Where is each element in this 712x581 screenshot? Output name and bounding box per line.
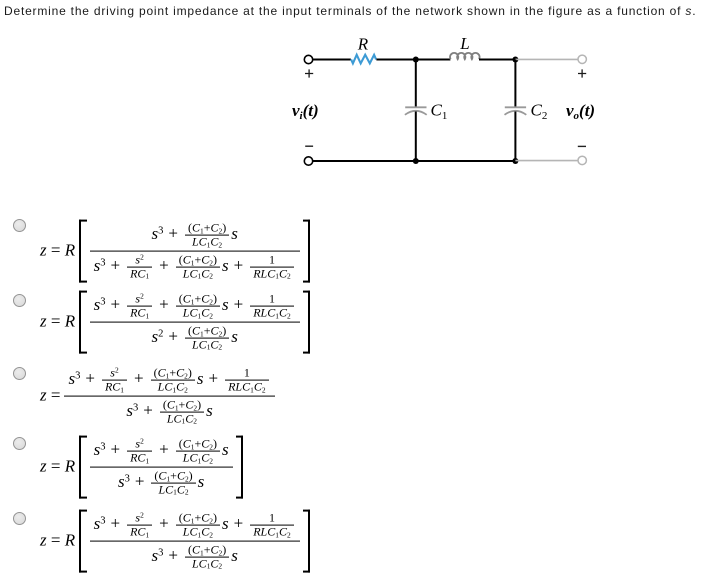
plus sign right — [578, 69, 586, 77]
bottom junction dot 1 — [413, 158, 419, 164]
svg-text:vi(t): vi(t) — [292, 101, 319, 122]
circuit schematic — [285, 28, 625, 178]
svg-text:L: L — [459, 34, 469, 53]
svg-text:vo(t): vo(t) — [566, 101, 595, 122]
wire: C2 down to bottom rail — [514, 112, 516, 162]
bottom junction dot 2 — [512, 158, 518, 164]
inductor L — [450, 53, 480, 59]
minus sign left — [305, 145, 313, 147]
bottom rail black — [313, 160, 515, 162]
input terminal top-left — [304, 55, 312, 63]
wire: top-left terminal to resistor — [313, 59, 351, 61]
option 1 formula — [40, 220, 310, 283]
svg-text:C1: C1 — [431, 101, 448, 123]
output terminal top-right — [578, 55, 586, 63]
option 1 radio — [13, 219, 26, 232]
bottom-left terminal — [304, 157, 312, 165]
option 5 formula — [40, 510, 310, 573]
node 2 junction dot — [512, 57, 518, 63]
bottom-right terminal — [578, 156, 586, 164]
option 4 radio — [13, 437, 26, 450]
svg-text:C2: C2 — [531, 101, 548, 123]
node 1 junction dot — [413, 57, 419, 63]
option 4 formula — [40, 436, 243, 499]
option 3 radio — [13, 367, 26, 380]
gray wire: node 2 to output terminal — [515, 58, 578, 60]
wire: node 2 down to C2 — [514, 60, 516, 107]
option 2 radio — [13, 294, 26, 307]
wire: inductor to node 2 — [479, 59, 515, 61]
capacitor C1 — [405, 106, 426, 108]
plus sign left — [305, 69, 313, 77]
minus sign right — [578, 145, 586, 147]
gray bottom wire — [515, 160, 578, 162]
wire: node 1 down to C1 — [415, 60, 417, 107]
wire: resistor to node 1 — [376, 59, 415, 61]
option 3 formula — [40, 365, 275, 428]
wire: node 1 to inductor — [416, 59, 451, 61]
option 5 radio — [13, 512, 26, 525]
resistor R1 — [351, 55, 376, 64]
svg-text:R: R — [357, 34, 369, 53]
capacitor C2 — [505, 106, 526, 108]
option 2 formula — [40, 291, 310, 354]
wire: C1 down to bottom rail — [415, 112, 417, 162]
